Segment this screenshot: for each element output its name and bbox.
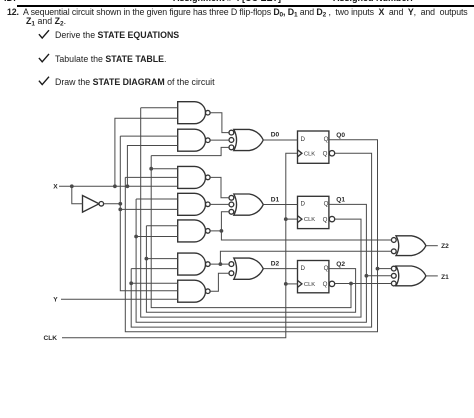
node Q1 G5 junction xyxy=(134,235,138,239)
wire G5 out to OR-D1 xyxy=(210,212,229,231)
svg-text:Z2: Z2 xyxy=(441,243,449,250)
D flip-flop FF0 xyxy=(298,131,335,163)
svg-text:Q1: Q1 xyxy=(336,197,345,204)
wire Y input xyxy=(61,298,178,300)
svg-text:D: D xyxy=(301,136,306,143)
wire Z1 output xyxy=(426,275,438,277)
node Z1 tap Q1 xyxy=(365,274,369,278)
svg-text:CLK: CLK xyxy=(44,335,58,342)
wire X input xyxy=(59,185,178,187)
wire X' to G2 upper xyxy=(120,135,177,137)
wire G5 branch to Z2 xyxy=(221,231,391,240)
node X-inverter tap xyxy=(70,184,74,188)
wire CLK to FF1 xyxy=(286,218,298,220)
wire G1 out to OR-D0 xyxy=(210,113,229,133)
svg-text:CLK: CLK xyxy=(304,282,315,288)
node Q0' G7 junction xyxy=(129,281,133,285)
checkmark 2 xyxy=(39,54,49,62)
svg-text:Q: Q xyxy=(324,136,329,143)
OR gate OR-Z2 xyxy=(391,236,426,256)
NAND gate G7 xyxy=(178,280,210,302)
svg-text:D1: D1 xyxy=(271,196,280,203)
wire G4 out to OR-D1 xyxy=(210,203,229,205)
wire Q1 feedback bus xyxy=(136,199,366,322)
node Q2' branch xyxy=(349,282,353,286)
NAND gate G6 xyxy=(178,253,210,275)
wire Z2 output xyxy=(426,245,438,247)
wire Q2' feedback bus xyxy=(151,156,351,308)
wire Q0' bus to G6 lower xyxy=(131,268,178,270)
wire Q2 bus to G5 upper xyxy=(146,225,177,227)
svg-text:Q: Q xyxy=(323,281,328,288)
wire Q1' bus to G1 upper xyxy=(141,107,178,109)
wire G7 out to OR-D2 xyxy=(210,273,229,291)
svg-text:Q2: Q2 xyxy=(336,261,345,268)
wire G3 out to OR-D1 xyxy=(210,177,229,197)
OR gate OR-D1 xyxy=(229,194,263,215)
wire Q0' feedback bus xyxy=(131,153,371,327)
NAND gate G2 xyxy=(178,129,210,151)
wire Q0 to Z1 xyxy=(378,268,392,270)
wire X to inverter xyxy=(72,186,83,204)
wire Q0 feedback bus xyxy=(125,140,377,332)
wire Q2' to Z1 xyxy=(335,283,392,285)
wire X bus up to G1 xyxy=(115,118,178,186)
node Q2' G3 junction xyxy=(149,167,153,171)
svg-text:X: X xyxy=(53,184,58,191)
D flip-flop FF2 xyxy=(298,261,335,293)
NAND gate G4 xyxy=(178,193,210,215)
svg-text:D0: D0 xyxy=(271,132,280,139)
wire CLK net xyxy=(62,153,298,337)
svg-text:Q: Q xyxy=(323,216,328,223)
wire X' to G4 lower xyxy=(120,208,177,210)
NAND gate G5 xyxy=(178,220,210,242)
wire Q0' to G7 upper xyxy=(131,282,178,284)
OR gate OR-D0 xyxy=(229,129,263,150)
checkmark 3 xyxy=(39,77,49,85)
wire Q1 bus to G4 upper xyxy=(136,198,178,200)
wire Q2' to G3 upper xyxy=(151,168,178,170)
wire Q2 feedback bus xyxy=(146,226,355,313)
wire Q0 bus to G3 mid xyxy=(125,176,177,178)
wire inverter output xyxy=(104,203,121,205)
wire bus to G2 lower xyxy=(127,146,177,187)
wire CLK to FF2 xyxy=(286,283,298,285)
wire G6 out to OR-D2 xyxy=(210,263,229,265)
node X bus junction xyxy=(113,184,117,188)
node CLK FF1 xyxy=(284,217,288,221)
node X bus junction 2 xyxy=(126,184,130,188)
wire D2 net xyxy=(263,268,297,270)
wire D0 net xyxy=(263,139,297,141)
question text line 2 xyxy=(26,16,66,26)
node CLK FF2 xyxy=(284,282,288,286)
top header partial row xyxy=(4,0,16,3)
checkmark 1 xyxy=(39,30,49,38)
NOT gate U1 (X inverter) xyxy=(83,196,104,213)
svg-text:D: D xyxy=(301,265,306,272)
checklist xyxy=(55,30,179,40)
svg-text:Q: Q xyxy=(324,201,329,208)
svg-text:D: D xyxy=(301,201,306,208)
NAND gate G3 xyxy=(178,166,210,188)
node X' G4 junction xyxy=(118,208,122,212)
header rule xyxy=(17,5,474,7)
svg-text:D2: D2 xyxy=(271,261,280,268)
node Z1 tap Q0 xyxy=(376,267,380,271)
svg-text:Y: Y xyxy=(53,296,58,303)
wire Q2' bus to OR-D0 input3 xyxy=(151,147,229,155)
svg-text:Z1: Z1 xyxy=(441,274,449,281)
wire G2 out to OR-D0 xyxy=(210,139,229,141)
node G5 branch xyxy=(220,229,224,233)
D flip-flop FF1 xyxy=(298,196,335,228)
wire X' bus xyxy=(120,136,177,291)
node inverter out junction xyxy=(118,202,122,206)
NAND gate G1 xyxy=(178,102,210,124)
svg-text:CLK: CLK xyxy=(304,217,315,223)
question text line 1 xyxy=(7,7,468,17)
wire G6 branch to Z2 xyxy=(220,251,391,264)
svg-text:Q0: Q0 xyxy=(336,132,345,139)
node Q2 G6 junction xyxy=(145,257,149,261)
svg-text:CLK: CLK xyxy=(304,151,315,157)
svg-text:Q: Q xyxy=(323,151,328,158)
OR gate OR-Z1 xyxy=(391,266,426,286)
wire Q2 to G6 upper xyxy=(146,258,177,260)
wire Q1 to Z1 xyxy=(366,275,391,277)
OR gate OR-D2 xyxy=(229,258,263,279)
svg-text:Q: Q xyxy=(324,265,329,272)
wire D1 net xyxy=(263,204,297,206)
wire Q1 to G5 lower xyxy=(136,236,178,238)
node G6 branch xyxy=(219,262,223,266)
wire Q1' feedback bus xyxy=(141,108,361,317)
